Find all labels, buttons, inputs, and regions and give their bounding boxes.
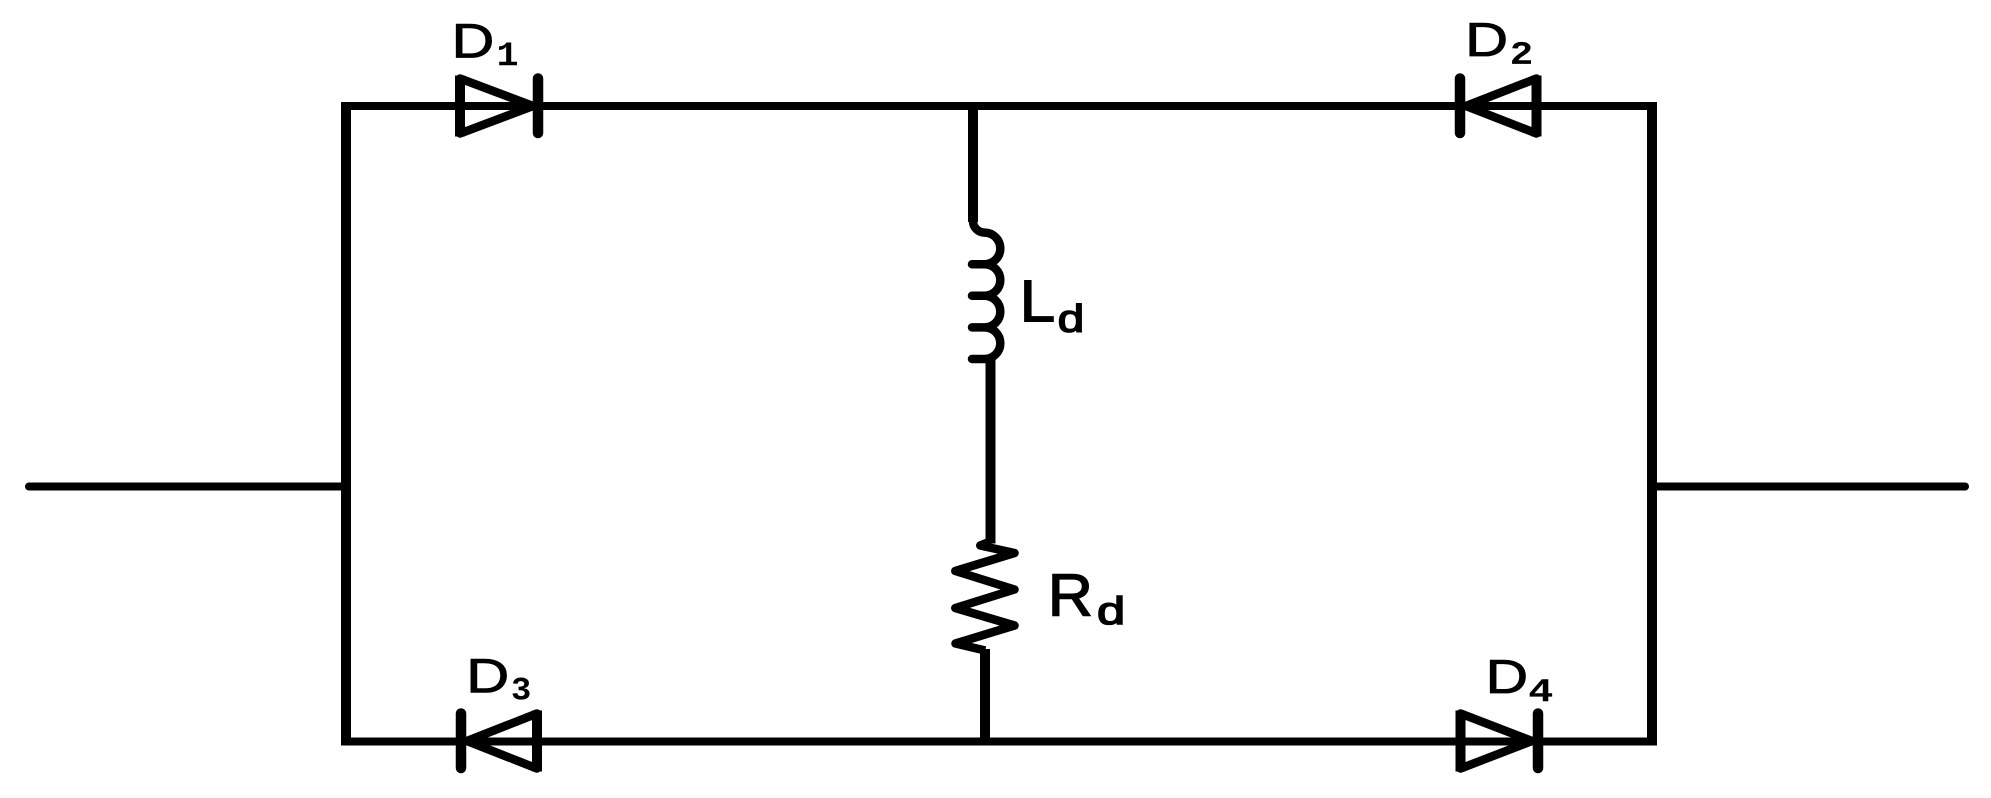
- wire: middle branch between Ld and Rd: [986, 358, 996, 544]
- wire: left vertical (bridge left side): [341, 102, 351, 746]
- wire: left input lead: [29, 483, 346, 491]
- wire: middle branch bottom segment: [980, 649, 990, 746]
- label Ld: [1025, 281, 1081, 332]
- diode D2 (top-right, pointing left): [1460, 76, 1537, 137]
- wire: right output lead: [1652, 483, 1965, 491]
- wire: top bus: [341, 102, 1657, 110]
- diode D4 (bottom-right, pointing right): [1461, 711, 1539, 772]
- resistor Rd zigzag: [955, 542, 1014, 651]
- label Rd: [1053, 574, 1122, 624]
- label D3: [471, 659, 529, 700]
- diode D3 (bottom-left, pointing left): [461, 711, 537, 772]
- label D4: [1490, 660, 1552, 701]
- inductor Ld coil: [972, 221, 1000, 359]
- wire: middle branch top segment: [968, 102, 978, 222]
- diode D1 (top-left, anode left, pointing right): [460, 76, 538, 137]
- wire: bottom bus: [341, 738, 1657, 746]
- wire: right vertical (bridge right side): [1647, 102, 1657, 746]
- label D2: [1470, 23, 1531, 64]
- label D1: [456, 24, 517, 65]
